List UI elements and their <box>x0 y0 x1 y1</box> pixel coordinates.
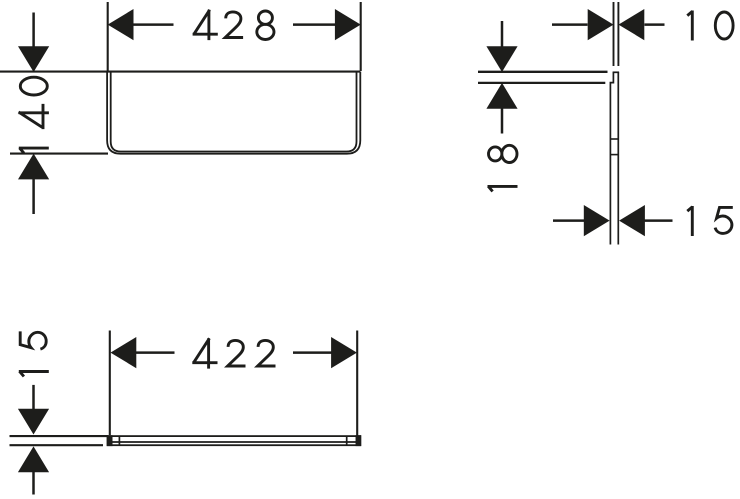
digit 4 of 428 <box>193 10 218 40</box>
dim 428 dimension line right segment <box>293 23 335 26</box>
dim 15 bottom bottom extension line <box>10 444 104 446</box>
top view bar outline <box>108 436 361 445</box>
dim 10 arrow pointing right <box>588 9 614 40</box>
dim 140 overrun line top <box>32 13 35 48</box>
digit 8 of 18 <box>489 145 518 162</box>
digit 5 of 15 side <box>715 207 733 233</box>
dim 140 arrow down <box>18 46 49 72</box>
dim 18 overrun line top <box>501 21 504 47</box>
dim 422 dimension line left segment <box>136 351 175 354</box>
dim 428 arrow right <box>335 9 361 40</box>
top view bar left divider <box>118 436 120 445</box>
top view bar middle line <box>108 441 361 443</box>
digit 4 of 422 <box>192 338 217 368</box>
digit second 2 of 422 <box>258 340 276 366</box>
top view bar right divider <box>346 436 348 445</box>
dim 15 bottom top extension line <box>10 435 109 437</box>
digit 1 of 15 side <box>687 206 692 236</box>
side view plate seam upper <box>610 138 618 140</box>
dim 10 dimension line right segment <box>645 23 665 26</box>
digit 1 of 140 <box>19 148 49 153</box>
top view bar right end cap line <box>356 436 358 445</box>
dim 422 extension line left <box>109 331 111 436</box>
dim 428 dimension line left segment <box>133 23 174 26</box>
dim 10 arrow pointing left <box>619 9 645 40</box>
side view wall plate top edge <box>613 71 620 73</box>
dim 15 side dimension line left segment <box>553 219 585 222</box>
digit 5 of 15 bottom <box>20 331 46 349</box>
top view bar left end cap fill <box>107 435 113 446</box>
front view outer contour <box>107 72 360 154</box>
top view bar right end cap fill <box>356 435 362 446</box>
dim 428 extension line right <box>360 2 362 71</box>
digit 8 of 428 <box>257 11 274 40</box>
dim 140 bottom extension line <box>10 153 108 155</box>
dim 10 dimension line left segment <box>552 23 588 26</box>
dim 18 arrow up <box>486 83 517 109</box>
dim 422 arrow right <box>331 337 357 368</box>
dim 18 overrun line bottom <box>501 108 504 133</box>
side view shelf bottom surface line <box>478 82 605 84</box>
dim 15 bottom arrow down <box>18 409 49 435</box>
dim 422 extension line right <box>356 331 358 437</box>
dim 140 arrow up <box>18 154 49 180</box>
dim 15 side arrow pointing right <box>584 205 610 236</box>
side view plate seam lower <box>610 154 618 156</box>
dim 15 side arrow pointing left <box>619 205 645 236</box>
dim 10 extension line left <box>613 2 615 66</box>
dim 10 extension line right <box>617 2 619 66</box>
digit 2 of 428 <box>225 12 243 38</box>
dim 428 arrow left <box>108 9 134 40</box>
digit 1 of 10 <box>687 11 692 41</box>
dim 15 bottom arrow up <box>18 446 49 472</box>
top view bar left end cap line <box>110 436 112 445</box>
dim 428 extension line left <box>107 2 109 71</box>
dim 18 arrow down <box>486 46 517 72</box>
dim 15 bottom overrun line top <box>32 385 35 411</box>
digit first 2 of 422 <box>228 340 246 366</box>
digit 4 of 140 <box>19 104 49 129</box>
dim 422 dimension line right segment <box>293 351 332 354</box>
digit 0 of 10 <box>715 12 733 39</box>
dim 15 bottom overrun line bottom <box>32 472 35 495</box>
side view shelf top surface line <box>478 71 608 73</box>
side view wall plate left edge with step <box>610 72 613 244</box>
dim 15 side dimension line right segment <box>645 219 673 222</box>
dim 140 overrun line bottom <box>32 179 35 214</box>
digit 1 of 18 <box>488 186 518 191</box>
side view wall plate right edge <box>617 72 619 244</box>
front view inner contour <box>111 72 357 152</box>
dim 422 arrow left <box>111 337 137 368</box>
dim 140 top edge / extension line <box>0 71 360 73</box>
digit 0 of 140 <box>20 77 47 95</box>
digit 1 of 15 bottom <box>19 371 49 376</box>
